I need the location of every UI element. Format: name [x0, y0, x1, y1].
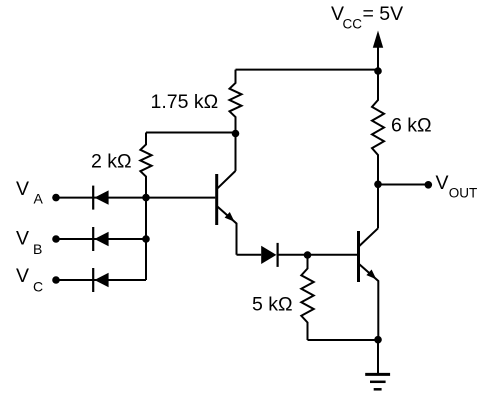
wire junction to 2k resistor	[146, 132, 236, 134]
svg-text:B: B	[33, 241, 42, 257]
svg-text:A: A	[34, 191, 44, 207]
power supply arrow VCC	[373, 31, 383, 72]
node junction row A	[142, 194, 150, 202]
resistor R1 1.75k	[230, 70, 242, 134]
diode D1 input A	[93, 186, 108, 210]
diode D2 input B	[93, 227, 108, 251]
wire D4 to Q2 base	[278, 254, 357, 256]
svg-text:V: V	[16, 178, 29, 200]
svg-text:C: C	[33, 279, 43, 295]
resistor R3 5k	[301, 255, 313, 340]
svg-text:V: V	[436, 172, 449, 194]
wire Q1 collector to junction	[235, 134, 237, 171]
wire output	[378, 184, 428, 186]
node junction row B	[142, 235, 150, 243]
wire input row C	[56, 279, 146, 281]
node input terminal C	[52, 276, 60, 284]
node input terminal B	[52, 235, 60, 243]
wire Q1 emitter to D4	[237, 254, 262, 256]
wire input row A	[56, 197, 215, 199]
svg-text:V: V	[16, 228, 29, 250]
label VB	[16, 228, 42, 258]
resistor R2 2k	[140, 133, 151, 198]
node input terminal A	[52, 194, 60, 202]
svg-text:= 5V: = 5V	[363, 3, 404, 25]
node VCC junction	[374, 67, 382, 75]
transistor Q1	[217, 171, 237, 255]
wire Q2 collector to output node	[377, 184, 379, 228]
svg-text:5 kΩ: 5 kΩ	[252, 294, 293, 316]
wire R3 bottom to emitter node	[308, 339, 379, 341]
diode D3 input C	[93, 268, 108, 292]
node R1 bottom junction	[232, 130, 240, 138]
node emitter ground junction	[374, 336, 382, 344]
label VCC = 5V	[331, 3, 403, 32]
wire VCC rail	[236, 69, 379, 71]
label VOUT	[436, 172, 478, 201]
label VA	[16, 178, 44, 207]
svg-text:1.75 kΩ: 1.75 kΩ	[151, 91, 219, 113]
diode D4 level shifter	[261, 243, 277, 267]
resistor R4 6k	[372, 71, 384, 184]
wire input bus vertical	[145, 198, 147, 280]
label VC	[16, 265, 43, 295]
ground	[365, 340, 390, 390]
svg-text:6 kΩ: 6 kΩ	[391, 115, 432, 137]
svg-text:OUT: OUT	[449, 186, 478, 201]
transistor Q2	[359, 228, 379, 339]
svg-text:V: V	[16, 265, 29, 287]
svg-text:2 kΩ: 2 kΩ	[91, 151, 132, 173]
wire input row B	[56, 238, 146, 240]
node output terminal	[425, 181, 433, 189]
node output junction	[374, 181, 382, 189]
svg-text:CC: CC	[343, 17, 363, 32]
node junction D4 / R3 / Q2 base	[304, 251, 312, 259]
